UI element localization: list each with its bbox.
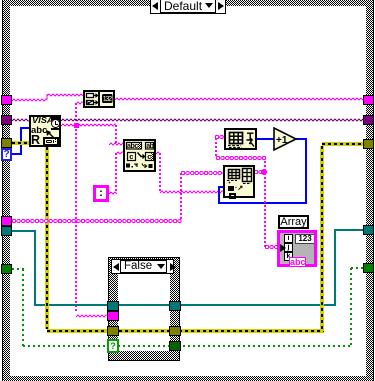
wire array up to index array — [215, 138, 217, 158]
False case structure right border — [170, 258, 179, 360]
wire teal up right — [334, 229, 336, 306]
svg-text:ab: ab — [146, 143, 153, 150]
case structure top border — [3, 0, 373, 6]
svg-text:132: 132 — [103, 96, 112, 103]
tunnel boolean out right — [363, 263, 374, 273]
False selector label — [111, 259, 174, 274]
wire VISA resource in — [12, 119, 29, 121]
False case tunnel refnum left — [107, 301, 119, 311]
wire under replace node — [218, 202, 307, 204]
colon string constant — [93, 185, 109, 202]
False case selector tunnel — [107, 339, 119, 353]
case selector label Default — [150, 0, 226, 14]
wire boolean across to selector — [23, 345, 351, 347]
False case tunnel boolean right — [169, 341, 181, 351]
wire into concat lower input — [76, 102, 83, 104]
increment +1 node — [273, 127, 299, 152]
wire increment out — [295, 138, 307, 140]
wire boolean down — [22, 269, 24, 347]
wire from colon constant — [109, 192, 117, 194]
svg-text:c: c — [129, 152, 133, 161]
tunnel refnum out right — [363, 225, 374, 235]
junction read buffer — [74, 123, 79, 128]
wire error in to VISA — [12, 141, 29, 145]
wire array replace output — [254, 171, 266, 173]
wire array vertical branch — [264, 157, 266, 247]
replace array subset node — [223, 165, 255, 198]
case structure bottom border — [3, 376, 373, 381]
wire down right side — [305, 138, 307, 204]
wire branch down to case — [75, 125, 77, 313]
wire search match out — [156, 152, 161, 154]
wire selector — [12, 153, 21, 155]
Array indicator label — [278, 215, 309, 229]
wire teal from left tunnel — [12, 230, 36, 232]
wire array back to index array — [216, 157, 265, 159]
wire match string to replace element input — [160, 191, 223, 193]
Array indicator terminal — [277, 230, 317, 267]
wire array into index array — [215, 136, 224, 138]
wire error up right side — [320, 146, 324, 331]
wire branch up to concat — [75, 103, 77, 125]
search split string node — [123, 139, 156, 172]
junction array out — [261, 169, 267, 175]
Array indicator string element abc — [289, 257, 306, 267]
svg-text:+1: +1 — [276, 135, 288, 146]
case selector tunnel — [1, 148, 12, 161]
wire constant up — [115, 153, 117, 193]
wire string into concat top input — [47, 94, 83, 96]
tunnel error in left — [1, 138, 12, 148]
wire array into indicator — [265, 246, 279, 248]
wire byte count into VISA — [21, 127, 29, 129]
wire down to search input — [115, 125, 117, 144]
wire boolean from left tunnel — [12, 268, 24, 270]
concatenate node A — [83, 90, 115, 108]
False case structure left border — [109, 258, 118, 360]
tunnel string in left — [1, 95, 12, 105]
wire down — [159, 153, 161, 192]
wire jog up — [46, 94, 48, 100]
wire index array out to increment — [257, 138, 275, 140]
False case tunnel error right — [169, 326, 181, 336]
tunnel refnum in left — [1, 226, 12, 236]
wire error down from VISA — [45, 147, 49, 329]
wire teal to right tunnel — [335, 229, 364, 231]
tunnel VISA resource right — [363, 115, 374, 125]
False case structure bottom border — [109, 351, 179, 360]
wire up to index input — [218, 186, 220, 204]
tunnel boolean in left — [1, 264, 12, 274]
wire into search string input — [109, 143, 123, 145]
tunnel error out right — [363, 139, 374, 149]
wire into replace index input — [218, 186, 223, 188]
index array node — [224, 128, 257, 150]
False case structure top border — [109, 258, 179, 267]
wire boolean up right — [350, 268, 352, 347]
wire array up — [180, 173, 182, 221]
svg-text:c: c — [147, 152, 151, 161]
wire VISA resource out to right tunnel — [61, 119, 364, 121]
False case tunnel string left — [107, 311, 119, 321]
tunnel string out right — [363, 95, 374, 105]
wire teal down — [34, 230, 36, 306]
wire selector up — [20, 127, 22, 155]
wire array into replace node — [181, 172, 223, 174]
svg-text:abc: abc — [127, 143, 138, 150]
False case tunnel error left — [107, 326, 119, 336]
wire boolean to right tunnel — [351, 267, 364, 269]
case structure right border — [366, 0, 373, 381]
tunnel VISA resource left — [1, 115, 12, 125]
tunnel array in left — [1, 216, 12, 226]
wire teal across bottom — [35, 304, 336, 306]
wire VISA read buffer out — [61, 124, 116, 126]
wire into search pattern input — [116, 152, 123, 154]
wire string into False case tunnel — [76, 315, 107, 317]
wire string concat output to right tunnel — [115, 98, 364, 100]
False case tunnel refnum right — [169, 301, 181, 311]
VISA Read node U1 — [29, 115, 61, 147]
wire error across bottom — [47, 329, 324, 333]
wire error to right tunnel — [322, 142, 364, 146]
wire array from left tunnel — [12, 220, 181, 222]
case structure left border — [3, 0, 10, 381]
wire string from left tunnel — [12, 99, 47, 101]
